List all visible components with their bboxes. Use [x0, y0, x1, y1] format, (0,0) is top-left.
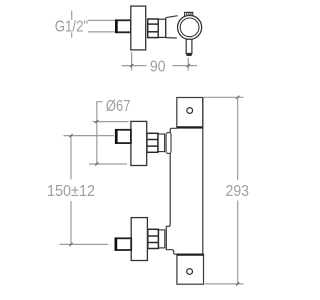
dimension Ø67 extension lines — [89, 122, 129, 164]
svg-text:293: 293 — [226, 183, 250, 200]
plan threaded nipple — [116, 20, 131, 32]
plan lever handle — [186, 39, 192, 53]
dimension 293 extension lines — [204, 97, 244, 284]
lower valve sleeve — [158, 230, 165, 248]
top tab bottom dark edge — [177, 126, 203, 128]
plan body collar — [166, 16, 178, 38]
elevation bottom mounting tab — [177, 254, 204, 284]
dimension 150±12 ticks — [69, 134, 72, 246]
elevation top mounting tab — [177, 98, 203, 129]
plan lever cap — [186, 54, 191, 56]
dimension 293 ticks — [236, 96, 239, 286]
dimension Ø67 ticks — [95, 120, 98, 166]
svg-text:Ø67: Ø67 — [106, 98, 131, 115]
dimension 150±12 extension lines — [60, 136, 115, 245]
svg-text:150±12: 150±12 — [47, 183, 95, 200]
plan knob outer circle — [178, 15, 202, 39]
top tab screw hole — [187, 108, 193, 114]
plan knob button — [185, 12, 193, 17]
svg-text:G1/2": G1/2" — [55, 19, 88, 36]
lower valve nipple — [115, 238, 131, 250]
column body left outline — [166, 128, 177, 254]
bottom tab screw hole — [187, 269, 193, 275]
dimension 293 line — [237, 99, 239, 284]
upper valve nipple — [116, 130, 131, 143]
lower valve flange — [131, 218, 147, 261]
dimension 90 extension line right — [187, 58, 189, 71]
plan flange — [131, 6, 146, 50]
G1/2" leader line — [71, 11, 73, 38]
upper valve sleeve — [158, 134, 165, 152]
dimension 90 ticks — [130, 64, 190, 67]
plan sleeve — [158, 19, 165, 37]
bottom tab top dark edge — [177, 254, 204, 256]
dimension Ø67 leader line — [97, 102, 103, 164]
lower valve hex nut — [148, 229, 159, 248]
G1/2" thread extension lines — [88, 20, 116, 32]
svg-text:90: 90 — [150, 58, 166, 75]
upper valve hex nut — [147, 133, 158, 152]
plan hex nut — [148, 19, 159, 38]
column body right outline — [202, 98, 204, 285]
dimension 90 extension line left — [131, 52, 133, 71]
plan knob inner circle — [180, 18, 199, 37]
dimension 90 line — [122, 65, 198, 67]
dimension 150±12 line — [70, 136, 72, 245]
upper valve boss — [166, 133, 171, 154]
upper valve flange — [131, 121, 147, 165]
